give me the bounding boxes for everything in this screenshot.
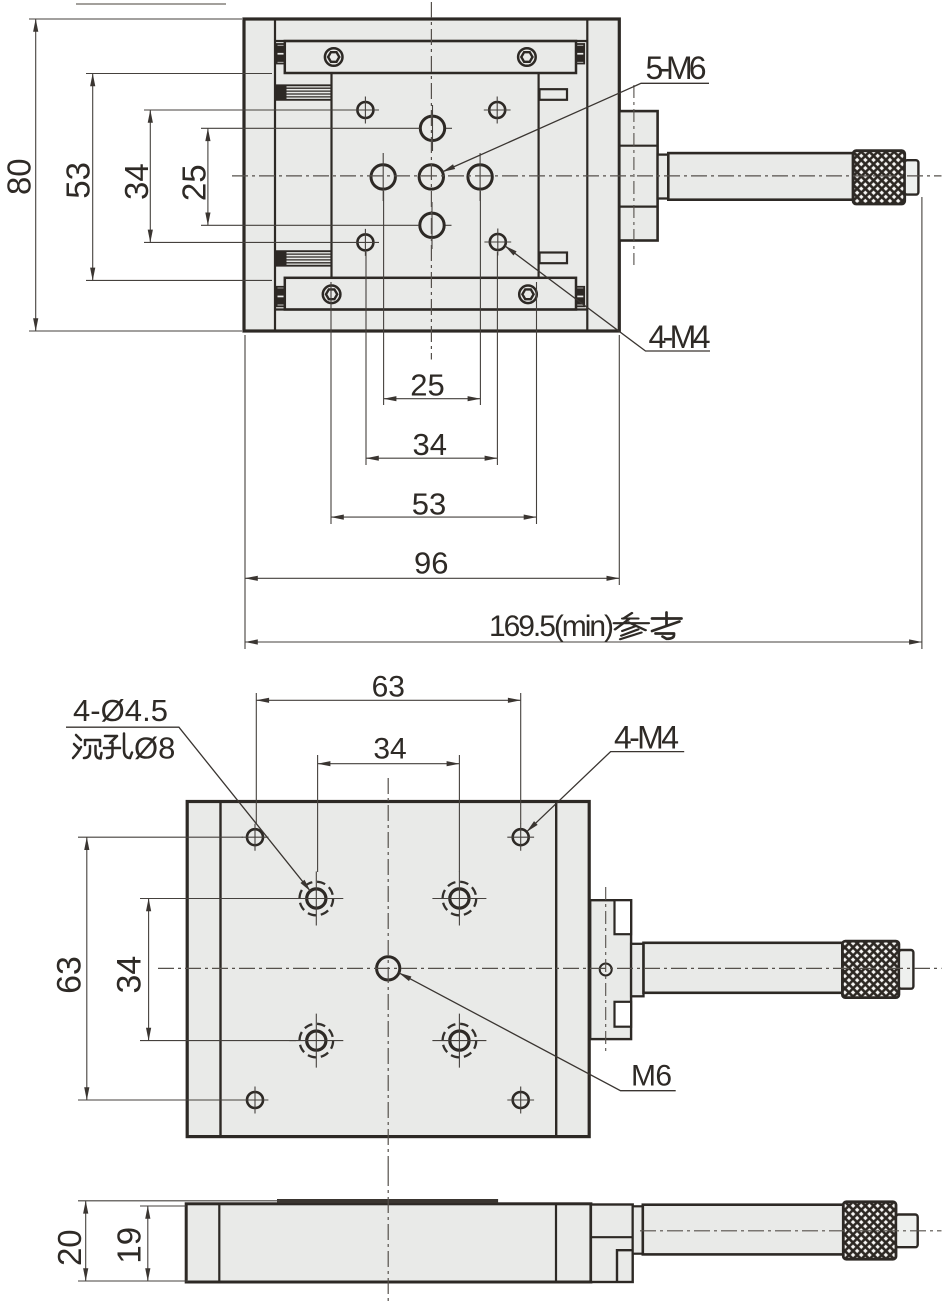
counterbore hole top-left [289,872,343,926]
leader M6 [399,973,676,1091]
mount block split lines [619,146,657,207]
extension line 53 bottom-left [330,282,332,524]
side view left column line [218,1204,220,1282]
spindle neck [658,155,669,199]
extension line 34 left-bottom [140,1040,296,1042]
svg-text:4-M4: 4-M4 [614,720,679,756]
extension line 34 bottom-left [365,252,367,465]
left side plate line [274,19,276,331]
horizontal centerline (bottom view) [158,967,942,969]
dim text CJK cankao [614,613,682,640]
svg-text:4-Ø4.5: 4-Ø4.5 [73,693,168,728]
bracket notch bottom [615,1002,632,1027]
extension line 53 top [86,73,272,75]
dimension line 20 [85,1201,87,1281]
extension line 25 bottom-left [383,191,385,405]
rail end stop bottom-left [277,287,285,307]
extension line 25 top [201,127,420,129]
dimension line 169.5 [245,641,922,643]
hole M6 bottom [420,202,452,249]
extension line 63 left-top [78,836,243,838]
side view right column line [555,1204,557,1282]
bracket screw hole [600,964,612,976]
base plate outline (bottom view) [187,802,589,1137]
extension line 34 left-top [140,898,296,900]
svg-text:63: 63 [51,956,89,994]
dimension line 34 top [318,763,460,765]
counterbore hole bottom-left [289,1014,343,1068]
hole M6 left [371,153,395,201]
knurled thimble (bottom view) [842,941,899,998]
micrometer mount block [619,111,657,240]
extension line 20 top [78,1200,280,1202]
dimension line 80 [35,19,37,331]
svg-text:34: 34 [373,733,406,766]
svg-text:34: 34 [413,427,447,462]
top plate strip (section) [277,1199,498,1203]
moving plate right edge [537,73,539,278]
rail end stop bottom-right [576,287,584,307]
dimension line 34 bottom [366,457,497,459]
extension line 25 bottom [201,224,419,226]
extension line 53 bottom-right [536,282,538,524]
hole M6 center [419,165,443,189]
horizontal centerline (side view) [640,1230,942,1232]
knurled thimble (side view) [843,1202,896,1259]
rail screw top-left [325,48,343,66]
right side plate line [586,19,588,331]
dimension line 96 [245,577,619,579]
side view body [186,1204,591,1282]
extension line 34 top-left [317,755,319,872]
svg-text:169.5(min): 169.5(min) [489,610,614,643]
extension line 20 bottom [78,1280,188,1282]
leader 4-M4 top view [505,246,710,351]
extension line 96 left [244,335,246,649]
svg-text:M6: M6 [631,1060,672,1093]
svg-text:25: 25 [410,368,444,403]
base M4 hole bottom-right [507,1087,534,1114]
vertical centerline (bottom view) [387,778,389,1170]
extension line 19 top [140,1205,186,1207]
hole M4 bottom-right [484,229,511,256]
svg-text:25: 25 [176,164,213,201]
extension line 80 top [29,18,242,20]
vertical centerline top view [430,2,432,360]
roller guide hatch top-left [275,85,332,100]
base M4 hole bottom-left [242,1087,269,1114]
bracket step [617,1250,633,1282]
svg-text:96: 96 [414,546,448,581]
counterbore hole top-right [432,872,486,926]
side view bracket [591,1205,633,1283]
dimension line 34 left [148,899,150,1041]
extension line 63 top-left [255,693,257,824]
spindle neck (side view) [633,1206,643,1253]
dimension line 34 left [149,110,151,242]
spindle neck (bottom view) [631,944,643,997]
leader 4-dia4.5 counterbore [66,727,311,891]
moving plate left edge [330,73,332,278]
mount block centerline [633,85,635,265]
svg-text:4-M4: 4-M4 [649,319,711,355]
extension line 25 bottom-right [479,191,481,405]
rail screw top-right [518,48,536,66]
micrometer bracket [590,900,631,1039]
rail screw bottom-right [519,286,537,304]
svg-text:53: 53 [60,162,97,199]
dimension line 63 left [86,837,88,1100]
knurled thimble [853,151,905,204]
micrometer barrel (side view) [643,1205,844,1255]
roller guide hatch bottom-left [275,251,332,266]
svg-text:5-M6: 5-M6 [646,50,707,86]
extension line 34 bottom-right [496,252,498,465]
stage body outline (top view) [244,19,619,331]
svg-text:80: 80 [1,158,38,195]
bracket notch top [615,900,632,934]
svg-text:34: 34 [118,163,155,200]
top rail [285,41,576,73]
micrometer barrel (bottom view) [644,943,843,993]
bottom rail [285,278,576,310]
svg-text:53: 53 [412,487,446,522]
horizontal centerline top view [232,175,942,177]
hole M6 top [420,105,452,151]
bracket centerline [605,887,607,1052]
micrometer tip (bottom view) [899,950,914,989]
dimension line 19 [147,1206,149,1281]
dimension line 63 top [256,699,520,701]
svg-text:63: 63 [372,671,405,704]
hole M6 right [468,153,492,201]
top inner edge [275,40,587,42]
extension line 34 top [144,109,352,111]
base plate right column line [555,802,557,1137]
label chenkong dia8 [73,734,132,759]
center hole M6 (bottom view) [377,957,400,980]
bracket split line [591,1236,633,1238]
extension line 63 top-right [520,693,522,824]
dimension line 25 left [207,128,209,225]
base M4 hole top-left [242,824,269,851]
extension line 96 right [618,335,620,585]
svg-text:Ø8: Ø8 [134,731,175,766]
extension line 34 bottom [144,241,352,243]
extension line 169.5 right [921,197,923,649]
guide slot top-right [540,89,568,100]
extension line 34 top-right [458,755,460,872]
rail end stop top-right [576,44,584,64]
micrometer barrel [668,153,853,200]
dimension line 25 bottom [384,398,481,400]
extension line 80 bottom [29,330,242,332]
dimension line 53 left [92,74,94,281]
hole M4 top-left [352,97,379,124]
svg-text:19: 19 [111,1227,148,1264]
bottom inner edge [275,308,587,310]
micrometer tip (side view) [896,1215,918,1248]
base M4 hole top-right [507,824,534,851]
micrometer tip [905,160,919,194]
leader 4-M4 bottom view [527,752,685,832]
guide slot bottom-right [540,253,568,264]
cropped top border line [76,3,226,5]
base plate left column line [219,802,221,1137]
rail screw bottom-left [323,286,341,304]
extension line 53 bottom [86,279,272,281]
dimension line 53 bottom [331,516,537,518]
counterbore hole bottom-right [432,1014,486,1068]
rail end stop top-left [277,44,285,64]
svg-text:34: 34 [111,956,149,994]
vertical centerline (side view) [387,1170,389,1302]
svg-text:20: 20 [51,1229,88,1266]
leader 5-M6 [442,83,709,172]
hole M4 top-right [484,97,511,124]
extension line 63 left-bottom [78,1099,243,1101]
hole M4 bottom-left [352,229,379,256]
